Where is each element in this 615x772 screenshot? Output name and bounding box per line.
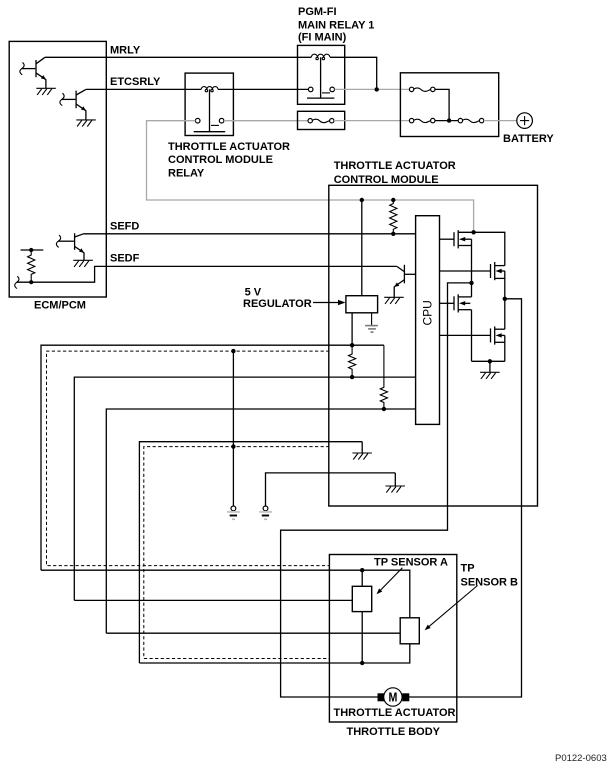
svg-text:THROTTLE ACTUATOR: THROTTLE ACTUATOR <box>334 707 456 719</box>
wire (sensor ground bottom rail) <box>139 644 409 663</box>
wire (PGM-FI coil to relay output) <box>330 57 377 89</box>
under-hood fuse/relay box <box>400 73 498 137</box>
shield dashed (inner, TP sensor B harness) <box>144 447 330 659</box>
resistor R_ecm (pull-down in ECM) <box>21 248 44 284</box>
svg-text:P0122-0603: P0122-0603 <box>555 753 607 764</box>
wire (fuse box to battery, grey) <box>484 120 519 122</box>
wire (H-bridge ground rail) <box>472 360 505 362</box>
wire (Q7 source to ground rail) <box>471 310 473 362</box>
fuse F_tac <box>308 119 334 123</box>
transistor Q2 (ETCSRLY driver) <box>60 89 86 120</box>
5V regulator label <box>243 286 346 310</box>
shield dashed (outer, TP sensor A harness) <box>47 351 330 565</box>
ground (sensor ground in module) <box>352 442 372 460</box>
wire ETCSRLY (ECM to relay coil to main relay contact) <box>86 88 201 90</box>
wire (sensor A top lead) <box>361 570 363 586</box>
svg-text:ETCSRLY: ETCSRLY <box>110 76 161 88</box>
wire (motor output B to throttle actuator) <box>408 299 521 697</box>
CPU U2 <box>416 216 440 425</box>
PGM-FI main relay 1 box <box>298 6 375 104</box>
wire (TP sensor A signal line) <box>74 377 415 600</box>
throttle body box <box>329 555 456 739</box>
wire (sensor A bottom lead) <box>361 612 363 663</box>
node junction (H-bridge output B) <box>503 297 507 301</box>
svg-text:TP SENSOR A: TP SENSOR A <box>374 556 448 568</box>
resistor R3 (SEFD pull-up) <box>390 200 397 234</box>
fuse F3 (lower right) <box>458 118 484 122</box>
battery <box>503 113 554 145</box>
node junction (R3 to SEFD line) <box>391 232 395 236</box>
node junction (VCC to MOSFET drain rail) <box>471 230 475 234</box>
ground (regulator, earth style) <box>365 326 378 333</box>
svg-text:CPU: CPU <box>421 300 435 325</box>
connector squiggle (ECM bottom-left pin) <box>15 276 19 288</box>
wire SEFD (ECM to CPU) <box>84 233 416 235</box>
resistor R1 (TP sensor A pull-up) <box>349 345 356 377</box>
node junction (fuse rail) <box>447 118 451 122</box>
throttle actuator control module box <box>329 160 538 506</box>
relay contact circles (TAC module relay) <box>195 118 224 123</box>
wire (sensor B wiper) <box>106 632 400 634</box>
svg-text:SENSOR B: SENSOR B <box>461 576 519 588</box>
wire (fuse to fuse box, grey) <box>334 120 409 122</box>
wire (TP sensor B signal line) <box>106 409 415 633</box>
ground (Q3 emitter) <box>73 260 93 267</box>
svg-text:THROTTLE ACTUATOR: THROTTLE ACTUATOR <box>168 141 290 153</box>
svg-text:M: M <box>388 690 397 705</box>
throttle actuator control module relay box <box>168 73 290 179</box>
5V regulator U1 <box>346 296 378 313</box>
ground (H-bridge source) <box>480 361 500 379</box>
node junction (5V rail / R1) <box>350 343 354 347</box>
svg-text:TP: TP <box>461 562 475 574</box>
TP SENSOR A label <box>374 556 448 594</box>
svg-text:(FI MAIN): (FI MAIN) <box>298 32 347 44</box>
svg-text:5 V: 5 V <box>245 286 262 298</box>
TP sensor A <box>352 586 371 611</box>
wire (5V rail to TP sensors) <box>41 345 384 570</box>
ECM/PCM box <box>9 41 106 311</box>
ground (Q4 emitter) <box>384 297 404 304</box>
wire (relay output grey feed to module) <box>147 121 474 232</box>
svg-text:THROTTLE ACTUATOR: THROTTLE ACTUATOR <box>334 160 456 172</box>
svg-text:CONTROL MODULE: CONTROL MODULE <box>168 154 273 166</box>
throttle actuator motor M <box>334 688 456 719</box>
ground (Q1 emitter) <box>36 88 56 95</box>
wire (5V to TP sensors top rail) <box>41 570 410 618</box>
ground (Q2 emitter) <box>76 120 96 127</box>
node junction (sensor A bottom) <box>360 661 364 665</box>
svg-text:SEFD: SEFD <box>110 220 139 232</box>
transistor Q1 (MRLY driver) <box>20 57 46 88</box>
svg-text:ECM/PCM: ECM/PCM <box>34 300 86 312</box>
relay coil (TAC module relay) <box>201 87 218 92</box>
node junction (VCC to pull-up R3) <box>391 198 395 202</box>
node junction (VCC to regulator) <box>360 198 364 202</box>
relay armature (PGM-FI main relay) <box>307 57 334 98</box>
mosfet Q7 (low side A) <box>440 294 472 312</box>
fuse F2 (lower left) <box>409 118 435 122</box>
svg-text:MRLY: MRLY <box>110 45 141 57</box>
TP SENSOR B label <box>425 562 518 630</box>
svg-text:MAIN RELAY 1: MAIN RELAY 1 <box>298 19 374 31</box>
node junction (R2 to sensor B line) <box>382 407 386 411</box>
relay armature (TAC module relay) <box>194 89 226 131</box>
chassis ground G1 (circle style) <box>227 506 240 519</box>
wire (regulator 5V output) <box>351 313 353 345</box>
wire (regulator ground) <box>371 313 373 325</box>
wire (Q5 source to Q7 drain) <box>471 239 473 297</box>
wire (F2 to F3) <box>435 120 458 122</box>
wire (F1 to junction) <box>435 89 449 120</box>
TP sensor B <box>400 618 419 644</box>
wire SEDF (ECM to Q4 base) <box>106 265 397 267</box>
node junction (coil feed on relay output) <box>375 87 379 91</box>
resistor R2 (TP sensor B pull-up) <box>380 345 387 409</box>
wire (sensor A wiper) <box>74 599 352 601</box>
wire (drain rail from VCC) <box>458 232 505 265</box>
wire (Q8 source to ground rail) <box>504 335 506 361</box>
wire (relay to fuse, grey) <box>224 120 308 122</box>
relay coil (PGM-FI main relay) <box>311 54 330 60</box>
node junction (ground rail) <box>488 359 492 363</box>
svg-text:THROTTLE BODY: THROTTLE BODY <box>347 726 441 738</box>
node junction (inner shield to chassis wire) <box>231 444 235 448</box>
mosfet Q6 (high side B) <box>440 262 505 280</box>
fuse F_tac box <box>298 111 345 129</box>
node junction (H-bridge output A) <box>469 281 473 285</box>
svg-text:SEDF: SEDF <box>110 253 140 265</box>
node junction (sensor A top) <box>360 568 364 572</box>
svg-text:PGM-FI: PGM-FI <box>298 6 337 18</box>
wire MRLY (ECM to PGM-FI relay coil) <box>45 56 311 58</box>
ground (logic ground in module) <box>386 473 406 493</box>
wire (shield drain to chassis ground) <box>232 351 234 506</box>
svg-text:RELAY: RELAY <box>168 167 205 179</box>
mosfet Q5 (high side A) <box>440 230 472 248</box>
wire (motor output A to throttle actuator) <box>281 283 472 697</box>
wire (Q6 source to Q8 drain) <box>504 271 506 329</box>
mosfet Q8 (low side B) <box>440 326 505 344</box>
wire (regulator feed) <box>361 200 363 296</box>
relay contact circles (PGM-FI main relay) <box>308 87 334 92</box>
fuse F1 (upper) <box>409 87 435 91</box>
transistor Q3 (SEFD driver) <box>56 233 84 260</box>
wire (TP sensor ground line) <box>139 442 362 663</box>
svg-text:CONTROL MODULE: CONTROL MODULE <box>334 174 439 186</box>
svg-text:REGULATOR: REGULATOR <box>243 298 312 310</box>
wire (module logic ground to chassis) <box>266 473 396 506</box>
transistor Q4 (SEDF input) <box>394 265 415 298</box>
wire (main relay output grey to fuse box) <box>335 88 410 90</box>
svg-text:BATTERY: BATTERY <box>503 133 554 145</box>
chassis ground G2 (circle style) <box>259 506 272 519</box>
node junction (R1 to sensor A line) <box>350 375 354 379</box>
wire (ECM bottom rail to SEDF) <box>17 266 107 282</box>
node junction (shield to chassis wire) <box>231 349 235 353</box>
